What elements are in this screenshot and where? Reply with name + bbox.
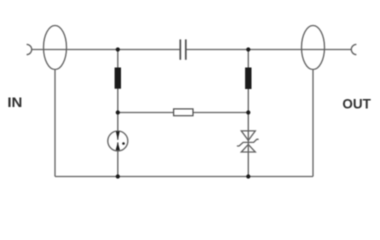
svg-text:OUT: OUT (342, 95, 371, 111)
svg-text:IN: IN (7, 94, 22, 110)
